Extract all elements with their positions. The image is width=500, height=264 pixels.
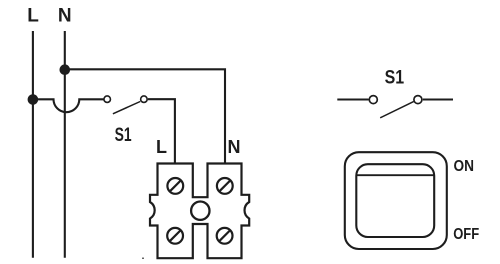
switch S1 symbol left terminal	[369, 96, 377, 104]
wire left stub of S1 symbol	[337, 98, 368, 100]
wire switch to terminal block L	[148, 99, 175, 163]
switch S1 symbol right terminal	[414, 96, 422, 104]
speck artifact	[142, 257, 144, 259]
junction dot on N	[60, 64, 71, 75]
terminal block outline	[150, 164, 249, 259]
junction dot on L	[28, 94, 39, 105]
screw terminal top-left	[167, 178, 183, 194]
wire L vertical line	[32, 31, 34, 258]
screw terminal bottom-right	[217, 228, 233, 244]
svg-text:N: N	[58, 6, 72, 27]
svg-text:ON: ON	[454, 158, 475, 175]
svg-text:L: L	[156, 137, 167, 157]
wire right stub of S1 symbol	[423, 98, 453, 100]
wire N vertical line	[64, 31, 66, 258]
switch S1 symbol lever	[380, 102, 413, 118]
screw terminal top-right	[217, 178, 233, 194]
switch S1 right terminal	[141, 96, 148, 103]
switch S1 lever	[113, 102, 140, 114]
wall switch plate	[345, 152, 447, 249]
svg-text:N: N	[228, 137, 241, 157]
svg-text:S1: S1	[385, 67, 405, 89]
center hole of terminal block	[191, 202, 209, 220]
wire N feed to terminal block	[65, 69, 225, 163]
rocker top face line	[356, 174, 434, 176]
switch S1 left terminal	[104, 96, 111, 103]
svg-text:L: L	[27, 6, 39, 27]
wire L to switch with hop under N	[33, 99, 104, 112]
screw terminal bottom-left	[167, 228, 183, 244]
wall switch rocker	[356, 164, 434, 237]
svg-text:S1: S1	[115, 125, 132, 146]
svg-text:OFF: OFF	[453, 226, 479, 243]
